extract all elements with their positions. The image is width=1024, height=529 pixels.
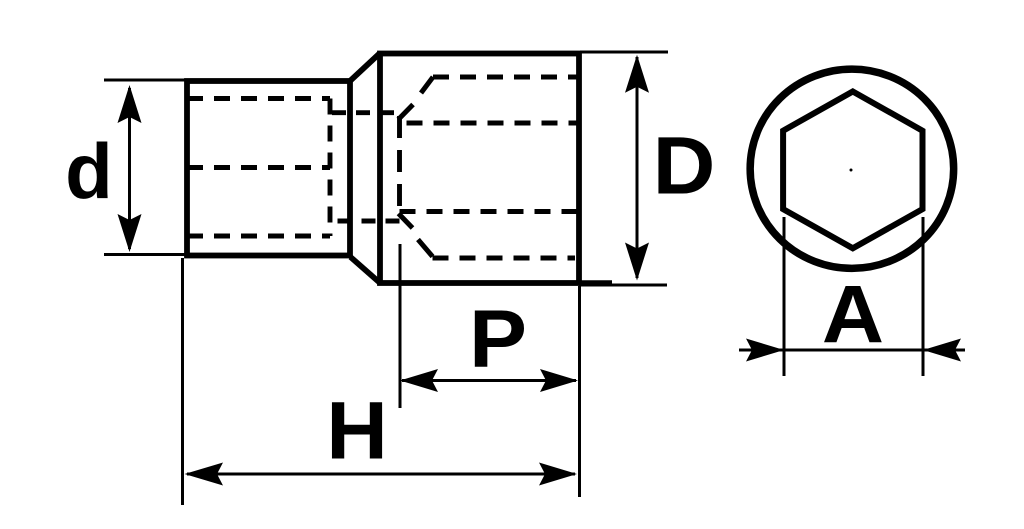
dimension H: horizontal dimension line [187,473,575,476]
hex recess corner mark lower slant [399,214,413,229]
dimension P: left arrowhead [400,369,438,392]
dimension P: left extension line [399,244,402,408]
dimension A: left extension line [783,217,786,376]
small cylinder hidden bore: bottom dashed line [187,234,330,239]
dimension d: bottom extension line [104,253,190,256]
front view: hexagonal recess [783,92,922,249]
dimension d: vertical dimension line [128,88,131,249]
bore bottom dashed line [433,256,576,261]
small cylinder body (drive end) outline [187,81,350,256]
dimension D: vertical dimension line [636,57,639,278]
dimension A: left arrowhead (outside, pointing right) [746,339,784,362]
hex recess lower dashed line [400,209,579,214]
bore chamfer slant lower [418,240,433,257]
large cylinder bottom edge overshoot [579,280,612,286]
hidden line through taper (lower) [330,219,400,224]
front view: center dot [850,169,853,172]
svg-text:H: H [326,384,388,476]
bore chamfer slant upper [421,77,433,93]
dimension d: bottom arrowhead [118,214,142,252]
hex recess upper dashed line [400,121,579,126]
taper top line [351,54,380,81]
svg-text:P: P [469,293,527,384]
bore top dashed line [433,75,578,80]
dimension P: right extension line (cylinder edge extended) [578,286,581,497]
dimension D: bottom extension line [580,284,667,287]
dimension D: top arrowhead [625,55,649,93]
dimension A: dimension line with outside tails [739,349,965,352]
dimension H: right arrowhead [539,463,577,486]
dimension D: top extension line [580,51,668,54]
dimension d: top extension line [104,79,190,82]
small cylinder dashed center line [187,165,330,170]
dimension H: left arrowhead [185,463,224,486]
small cylinder hidden bore: top dashed line [187,96,330,101]
hidden line through taper (upper) [332,110,397,115]
dimension D: bottom arrowhead [625,243,649,281]
front view: socket outer circle [750,69,954,268]
dimension A: right extension line [922,217,925,376]
large cylinder body outline [380,54,579,284]
dimension H: left extension line [181,258,184,505]
small cylinder hidden bore: right dashed edge [328,99,333,237]
taper bottom line [351,257,380,283]
dimension d: top arrowhead [118,85,142,123]
svg-text:d: d [65,127,113,215]
dimension A: right arrowhead (outside, pointing left) [923,339,961,362]
svg-text:A: A [822,268,884,360]
hex recess corner mark upper slant [398,105,413,120]
dimension P: horizontal dimension line [402,379,576,382]
hex recess dashed vertical line [397,116,402,208]
dimension P: right arrowhead [540,369,578,392]
svg-text:D: D [653,120,716,211]
